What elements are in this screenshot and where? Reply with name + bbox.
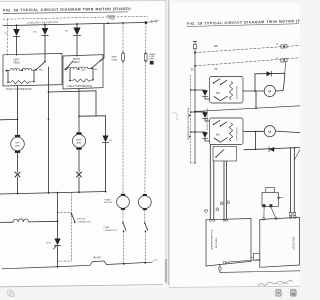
svg-text:M: M <box>268 130 271 134</box>
svg-text:SCR: SCR <box>46 243 51 245</box>
svg-text:M1: M1 <box>216 133 220 137</box>
svg-text:58: 58 <box>276 58 278 60</box>
wires to suppressor pcb <box>209 145 211 220</box>
node dots on bus <box>16 21 148 26</box>
page bottom edge right <box>169 286 300 287</box>
right motor <box>76 132 81 134</box>
svg-text:3: 3 <box>221 203 222 205</box>
motor M2 loop <box>243 130 264 132</box>
title FIG 36 <box>3 7 131 13</box>
binding gap line 2 <box>168 0 170 285</box>
title FIG 38 <box>187 19 304 26</box>
svg-text:LEFT: LEFT <box>15 142 21 144</box>
svg-text:CONTACTOR: CONTACTOR <box>104 229 117 232</box>
svg-text:1: 1 <box>205 211 206 213</box>
svg-text:MOTOR: MOTOR <box>78 218 86 220</box>
pump motor left <box>121 194 125 196</box>
svg-text:4: 4 <box>227 202 228 204</box>
dashed feed line 2 <box>195 58 300 66</box>
main vertical bus with fuse <box>193 41 196 43</box>
bottom bus with shunt <box>2 261 152 269</box>
logic pcb box <box>260 217 300 267</box>
junction drop M2 wire to diode line <box>255 132 257 150</box>
svg-text:2: 2 <box>217 209 218 211</box>
svg-text:ASSY (REF): ASSY (REF) <box>215 237 218 248</box>
left page <box>0 1 166 286</box>
diode D6 <box>76 24 78 28</box>
svg-text:SUPPRESSOR PCB CONNECTION: SUPPRESSOR PCB CONNECTION <box>188 107 190 140</box>
svg-text:RIGHT: RIGHT <box>73 59 81 61</box>
svg-text:SEAT: SEAT <box>112 56 118 59</box>
motor M1 loop <box>243 90 264 92</box>
svg-text:CONTACTOR: CONTACTOR <box>78 220 91 223</box>
svg-text:(SUPPRESSOR): (SUPPRESSOR) <box>237 86 239 99</box>
right motor branch <box>78 89 80 132</box>
top supply bus <box>3 23 146 26</box>
svg-text:AUXILIARY KEYSWITCH: AUXILIARY KEYSWITCH <box>27 21 58 25</box>
junction drop M1 wire to mid line <box>255 91 257 108</box>
SCR column <box>57 193 59 239</box>
right field box <box>63 55 103 89</box>
feed diode 1 <box>191 89 205 91</box>
svg-text:FUSE: FUSE <box>112 59 118 61</box>
svg-text:MOTOR: MOTOR <box>105 202 113 204</box>
right field contact arms <box>92 61 101 69</box>
bottom-left copy icon <box>8 290 14 297</box>
dashed suppressor connection line <box>190 75 192 163</box>
diode D7 column <box>105 116 107 136</box>
svg-text:FIELD SUPPRESSOR: FIELD SUPPRESSOR <box>68 86 93 88</box>
svg-text:(REF): (REF) <box>149 59 154 61</box>
svg-text:M: M <box>268 90 271 94</box>
dashed box around SCR <box>71 192 73 261</box>
svg-text:SHUNT: SHUNT <box>93 257 102 259</box>
far right wire pair to logic pcb <box>290 147 292 149</box>
feed diode 3 <box>191 131 205 133</box>
feed diode 2 <box>191 111 205 113</box>
left field coils <box>7 68 37 70</box>
left field box <box>3 53 62 86</box>
svg-text:PUMP: PUMP <box>104 227 111 229</box>
motor contactor block 1 <box>210 77 244 104</box>
motor contactor block 2 <box>210 118 244 145</box>
bottom-right icons <box>276 290 296 296</box>
svg-text:RIGHT: RIGHT <box>76 139 83 141</box>
faint pencil mark left <box>172 112 179 120</box>
binding gap line 1 <box>165 0 167 284</box>
diode D5 <box>44 25 46 28</box>
fuse branch left (seat fuse) <box>122 23 124 51</box>
left motor branch <box>17 86 19 135</box>
mid return bus <box>0 192 106 195</box>
right page <box>169 3 300 288</box>
inductor L1 <box>0 221 13 223</box>
svg-text:ARM: ARM <box>15 144 20 147</box>
bottom long wire <box>220 271 300 273</box>
aux contact box <box>213 147 237 162</box>
svg-text:PUMP: PUMP <box>105 199 112 201</box>
svg-text:D8: D8 <box>214 44 218 48</box>
mid horizontal line <box>195 106 300 112</box>
fuse branch right (main fuse) <box>145 23 147 53</box>
svg-text:LOGIC PCB: LOGIC PCB <box>293 237 296 250</box>
pump motor right <box>143 194 147 196</box>
diode D4 <box>16 25 18 29</box>
svg-text:ARM: ARM <box>77 141 82 144</box>
left motor <box>15 135 20 137</box>
left field suppressor resistor <box>7 71 9 83</box>
svg-text:SUPPRESSOR PCB: SUPPRESSOR PCB <box>212 229 214 250</box>
pump contactor switches <box>122 222 124 224</box>
dashed top border <box>3 16 148 19</box>
right field coils <box>66 67 92 69</box>
page top edge left <box>0 0 166 3</box>
handwriting <box>258 281 293 286</box>
right thermal cutout X <box>77 172 82 177</box>
connector stub to page edge <box>146 21 159 23</box>
svg-text:FIELD: FIELD <box>73 62 80 64</box>
dashed feed line 1 <box>195 45 300 52</box>
left thermal cutout X <box>15 172 20 177</box>
svg-text:(SUPPRESSOR): (SUPPRESSOR) <box>237 127 239 140</box>
svg-text:M2: M2 <box>216 91 220 95</box>
right field suppressor resistor <box>69 69 71 81</box>
svg-text:FUSE: FUSE <box>109 19 116 21</box>
wire right field to D7 column <box>95 91 97 116</box>
wire bus to right field arm <box>103 23 105 58</box>
wire between field assemblies <box>49 91 97 92</box>
relay component above logic box <box>262 192 278 206</box>
svg-text:FIELD SUPPRESSOR: FIELD SUPPRESSOR <box>6 89 32 91</box>
svg-text:FIELD: FIELD <box>14 63 21 65</box>
svg-text:FWD: FWD <box>93 69 98 71</box>
svg-text:LEFT: LEFT <box>14 60 20 62</box>
binding gap dark bottom <box>166 0 168 284</box>
dashed left border <box>7 19 9 56</box>
svg-text:58: 58 <box>276 44 278 46</box>
left field contact arm <box>36 62 45 70</box>
page bottom edge left <box>0 285 163 287</box>
suppressor pcb box <box>206 219 251 267</box>
svg-text:30AMP: 30AMP <box>107 15 115 18</box>
motor contactor switch <box>71 213 73 215</box>
